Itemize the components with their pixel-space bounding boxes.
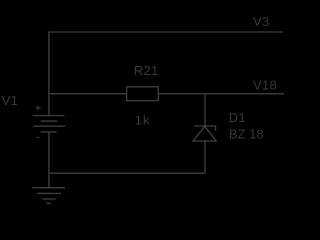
- wire V18 net right segment from resistor: [158, 93, 284, 95]
- svg-text:BZ 18: BZ 18: [229, 127, 264, 142]
- battery minus mark: [36, 137, 39, 139]
- wire diode D1 cathode lead: [204, 94, 206, 126]
- wire diode D1 anode lead: [204, 141, 206, 173]
- svg-text:D1: D1: [229, 110, 246, 125]
- wire battery minus to ground: [48, 132, 50, 188]
- svg-text:V3: V3: [253, 14, 270, 29]
- wire left vertical from V3 to battery plus: [48, 31, 50, 115]
- svg-text:R21: R21: [134, 63, 159, 78]
- wire V3 net top horizontal: [49, 31, 283, 33]
- svg-text:1k: 1k: [135, 113, 151, 128]
- battery plus mark: [35, 105, 41, 111]
- battery V1: [33, 116, 65, 132]
- wire bottom horizontal return: [49, 172, 205, 174]
- wire V18 net left segment to resistor: [49, 93, 127, 95]
- svg-text:V18: V18: [253, 77, 277, 92]
- diode D1 zener: [193, 126, 216, 141]
- ground: [32, 188, 65, 204]
- svg-text:V1: V1: [2, 93, 19, 108]
- resistor R21: [127, 87, 159, 101]
